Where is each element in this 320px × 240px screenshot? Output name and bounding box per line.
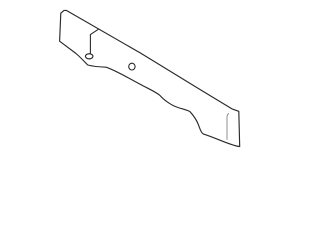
part outline (rail bracket side view) [60, 10, 240, 146]
leader line to slot [90, 29, 98, 54]
fold line on end face [227, 113, 229, 139]
hole [129, 63, 135, 70]
slot oval [85, 54, 93, 59]
